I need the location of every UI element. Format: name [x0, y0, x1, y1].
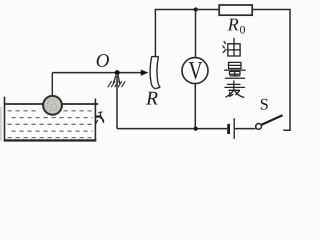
pivot support legs	[113, 74, 120, 84]
junction bottom	[194, 127, 198, 131]
pivot support hatching	[108, 81, 125, 87]
float	[43, 96, 62, 115]
label oil-gauge char 油	[223, 38, 240, 56]
lever arm	[52, 72, 141, 74]
scan edge artifact	[0, 107, 2, 141]
float rod	[51, 73, 53, 97]
switch S	[256, 124, 262, 130]
wiper arrowhead	[141, 70, 149, 76]
label R	[146, 92, 158, 105]
wire voltmeter top	[195, 10, 197, 58]
battery	[229, 118, 235, 139]
label S	[261, 99, 268, 110]
label O	[97, 54, 109, 67]
pivot dot O	[115, 70, 120, 75]
junction top	[194, 7, 198, 11]
label oil-gauge char 量	[225, 62, 246, 78]
wire rheostat top to top rail	[155, 10, 195, 57]
oil dashes	[8, 111, 93, 138]
wire battery to switch	[235, 128, 256, 130]
wire bottom rail left	[117, 128, 227, 130]
label oil-gauge char 表	[225, 81, 245, 97]
wire junction to R0	[196, 9, 220, 11]
voltmeter V	[182, 58, 208, 84]
rheostat R	[150, 57, 160, 89]
resistor R0	[219, 5, 252, 15]
wire R0 to right edge and down	[252, 10, 290, 131]
tank	[4, 97, 99, 141]
label R0	[228, 19, 239, 31]
wire pivot to bottom rail	[116, 76, 118, 129]
wire voltmeter bottom	[194, 84, 196, 129]
drain tap	[95, 112, 103, 125]
